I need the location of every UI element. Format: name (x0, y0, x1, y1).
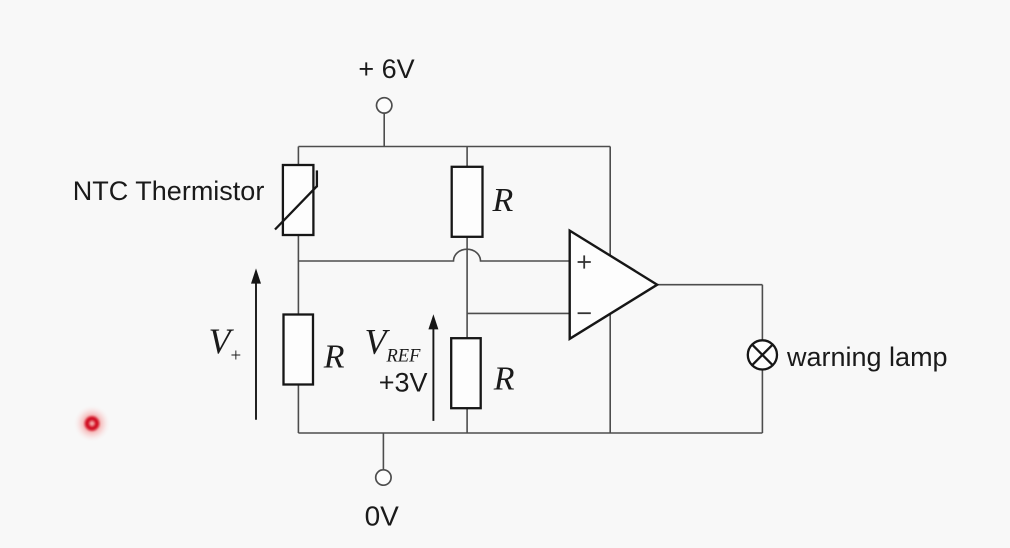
wire: node VREF to op-amp - input (467, 312, 570, 314)
wire: top bus to thermistor top (297, 147, 299, 167)
label VREF (365, 322, 422, 367)
svg-text:+: + (231, 346, 242, 367)
wire: lamp bottom to bottom bus (761, 370, 763, 434)
op-amp + input pin mark (578, 255, 591, 268)
op-amp U1 (570, 231, 658, 339)
svg-text:R: R (493, 361, 515, 398)
wire: node V+ to resistor R1 top (297, 261, 299, 315)
resistor R2 (top centre) (452, 167, 483, 237)
lamp L1 (warning lamp) (748, 340, 777, 369)
wire: thermistor bottom to node V+ (297, 235, 299, 261)
svg-text:+3V: +3V (379, 367, 428, 397)
wire: right supply branch from top bus to bottom bus (behind op-amp) (609, 147, 611, 434)
wire: output down to lamp (761, 285, 763, 341)
resistor R1 (lower left) (284, 315, 314, 385)
thermistor RT1 (NTC) (275, 165, 317, 235)
svg-text:R: R (323, 339, 345, 376)
wire: top bus (298, 146, 610, 148)
arrow VREF (428, 314, 438, 421)
wire: bottom bus to 0V terminal stub (382, 433, 384, 470)
svg-text:warning lamp: warning lamp (786, 342, 948, 372)
label V+ (209, 321, 242, 367)
svg-text:REF: REF (386, 346, 422, 366)
wire: resistor R2 bottom to resistor R3 top (under hop) (466, 237, 468, 339)
wire: +6V terminal stub (383, 113, 385, 146)
svg-text:NTC Thermistor: NTC Thermistor (73, 176, 265, 206)
wire: node V+ to op-amp + input with hop over centre branch (298, 249, 569, 261)
arrow V+ (251, 268, 261, 419)
power terminal +6V (377, 98, 392, 113)
wire: op-amp output (657, 284, 762, 286)
svg-text:+ 6V: + 6V (358, 54, 414, 84)
wire: bottom bus (298, 432, 762, 434)
svg-text:0V: 0V (365, 501, 400, 532)
wire: resistor R1 bottom to bottom bus (297, 384, 299, 433)
resistor R3 (lower centre) (451, 338, 481, 408)
laser pointer dot (73, 405, 111, 443)
wire: top bus to resistor R2 top (466, 147, 468, 168)
wire: resistor R3 bottom to bottom bus (466, 408, 468, 433)
svg-text:R: R (492, 182, 514, 219)
ground terminal 0V (376, 470, 391, 485)
op-amp - input pin mark (578, 312, 591, 314)
